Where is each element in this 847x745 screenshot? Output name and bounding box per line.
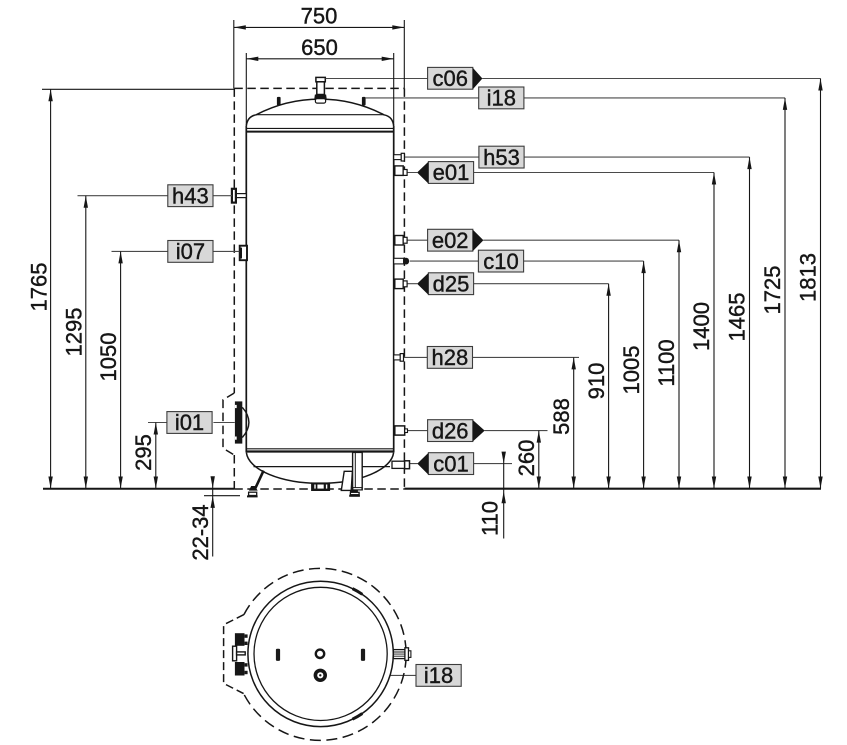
leader c01 bbox=[410, 463, 513, 465]
leader h53 bbox=[404, 156, 749, 158]
arrow 295 top bbox=[154, 423, 158, 435]
top view i18 port center dot bbox=[319, 674, 321, 676]
svg-text:1725: 1725 bbox=[760, 266, 785, 315]
flange i01 nick upper bbox=[235, 405, 237, 408]
arrow 260 bottom bbox=[537, 477, 541, 489]
dim 1400 line bbox=[713, 173, 715, 489]
top view flange stem vertical bbox=[233, 646, 237, 661]
right foot block bbox=[350, 490, 358, 492]
arrow 1050 top bbox=[118, 251, 122, 263]
arrow 22-34 upper (down) bbox=[211, 476, 215, 488]
top view weld mark lower right bbox=[353, 714, 363, 720]
connection i07 dark bar bbox=[239, 248, 242, 259]
arrow 1005 top bbox=[641, 261, 645, 273]
center drain slit right bbox=[326, 485, 327, 489]
svg-text:1050: 1050 bbox=[96, 333, 121, 382]
arrow 1465 top bbox=[747, 157, 751, 169]
top view insulation dashed circle bbox=[244, 568, 407, 740]
top view inner shell circle bbox=[254, 587, 387, 720]
arrow 110 upper (down) bbox=[502, 452, 506, 464]
svg-text:588: 588 bbox=[549, 398, 574, 435]
label c01 bbox=[417, 451, 473, 476]
leader i18 top bbox=[366, 97, 785, 99]
fitting c06 collar bbox=[315, 99, 325, 103]
label h28 bbox=[427, 345, 472, 370]
top weld seam lower line bbox=[246, 131, 393, 133]
center drain window bbox=[317, 485, 323, 489]
dim 650 line bbox=[246, 58, 393, 60]
dim 1813 line bbox=[820, 79, 822, 489]
stub c10 pipe bbox=[394, 258, 404, 264]
arrow 588 bottom bbox=[572, 477, 576, 489]
dome sensor tick right (i18 pocket) bbox=[362, 97, 366, 106]
arrow 1725 top bbox=[783, 98, 787, 110]
svg-text:260: 260 bbox=[514, 440, 539, 477]
svg-text:h53: h53 bbox=[483, 145, 520, 170]
svg-text:i18: i18 bbox=[424, 663, 453, 688]
svg-text:d26: d26 bbox=[432, 418, 469, 443]
top view tick right bbox=[361, 649, 365, 661]
front leg bottom band bbox=[353, 488, 362, 490]
top view flange stem horizontal bbox=[237, 652, 246, 655]
insulation jacket dashed outline (front view) bbox=[223, 88, 404, 489]
top view right stub nub bbox=[409, 651, 411, 658]
stub d26 flange square bbox=[395, 426, 405, 435]
front leg inner line bbox=[354, 453, 356, 490]
arrow 1295 bottom bbox=[84, 477, 88, 489]
dim 750 extension left bbox=[233, 20, 235, 88]
dim 1100 line bbox=[678, 240, 680, 488]
stub c10 bullet bbox=[403, 258, 409, 265]
arrow 1465 bottom bbox=[747, 477, 751, 489]
label i07 bbox=[168, 239, 213, 264]
ground baseline left segment bbox=[43, 488, 234, 490]
stub d25 nipple bbox=[403, 281, 407, 287]
label i18 bottom bbox=[416, 663, 461, 688]
leader h28 bbox=[404, 356, 579, 358]
flange i01 body bbox=[235, 401, 242, 443]
bottom weld seam upper line bbox=[246, 448, 393, 450]
tank shell left side bbox=[245, 126, 247, 453]
arrow 1725 bottom bbox=[783, 477, 787, 489]
svg-text:i18: i18 bbox=[487, 86, 516, 111]
stub e01 flange square bbox=[395, 166, 403, 176]
arrow 750 right bbox=[392, 25, 404, 29]
bottom weld seam lower line bbox=[246, 450, 393, 452]
svg-text:1005: 1005 bbox=[619, 346, 644, 395]
svg-text:910: 910 bbox=[584, 363, 609, 400]
top view i18 port outer bbox=[314, 669, 327, 682]
tank top dome bbox=[246, 99, 393, 127]
left foot base bbox=[247, 495, 258, 497]
label d26 bbox=[428, 418, 485, 443]
leader d26 bbox=[407, 430, 547, 432]
top view weld mark upper right bbox=[353, 589, 363, 595]
svg-text:1813: 1813 bbox=[796, 253, 821, 302]
bottom dished head arc bbox=[246, 453, 393, 484]
stub h28 pipe bbox=[394, 355, 401, 360]
leader c10 bbox=[410, 260, 644, 262]
right foot base bbox=[349, 495, 360, 497]
center drain slit left bbox=[314, 485, 315, 489]
svg-text:295: 295 bbox=[131, 434, 156, 471]
stub e02 nipple bbox=[403, 237, 407, 243]
stub e02 flange square bbox=[395, 236, 403, 246]
arrow 1295 top bbox=[84, 196, 88, 208]
svg-text:h28: h28 bbox=[432, 345, 469, 370]
label i18 top bbox=[479, 86, 524, 111]
left foot block bbox=[249, 486, 258, 491]
arrow 1100 top bbox=[677, 240, 681, 252]
arrow 910 bottom bbox=[606, 477, 610, 489]
dim 295 line bbox=[155, 423, 157, 489]
top view tick left bbox=[276, 649, 280, 661]
arrow 260 top bbox=[537, 431, 541, 443]
top weld seam upper line bbox=[246, 127, 393, 129]
top view right stub threads bbox=[394, 652, 406, 656]
svg-text:e02: e02 bbox=[432, 228, 469, 253]
arrow 1400 top bbox=[712, 173, 716, 185]
leader c06 bbox=[326, 78, 821, 80]
dim 750 extension right bbox=[403, 20, 405, 88]
stub c01 pipe bbox=[392, 461, 405, 468]
stub d25 flange square bbox=[395, 279, 403, 289]
dim 650 extension right bbox=[393, 53, 395, 126]
svg-text:1765: 1765 bbox=[27, 263, 52, 312]
ground baseline right segment bbox=[404, 488, 821, 490]
leader h43 bbox=[78, 195, 233, 197]
svg-text:h43: h43 bbox=[172, 183, 209, 208]
center drain block bbox=[311, 482, 330, 491]
top view flange bolt 1 bbox=[245, 634, 248, 637]
flange i01 collar arc bbox=[242, 407, 249, 437]
arrow 650 right bbox=[382, 57, 394, 61]
arrow 1813 top bbox=[818, 79, 822, 91]
dim 650 extension left bbox=[245, 53, 247, 126]
top view right stub end bar bbox=[405, 648, 409, 661]
dim 1765 top extension line bbox=[42, 88, 234, 90]
fitting c06 nut bbox=[314, 95, 326, 99]
arrow 1100 bottom bbox=[677, 477, 681, 489]
top view i18 port inner bbox=[317, 672, 323, 678]
svg-text:e01: e01 bbox=[433, 160, 470, 185]
arrow 750 left bbox=[234, 25, 246, 29]
dim 750 line bbox=[234, 26, 404, 28]
top view flange bolt 2 bbox=[245, 642, 248, 645]
svg-text:110: 110 bbox=[477, 501, 502, 536]
leader i07 bbox=[112, 250, 240, 252]
arrow 295 bottom bbox=[154, 477, 158, 489]
label e02 bbox=[428, 228, 484, 253]
leader i01 bbox=[148, 422, 235, 424]
connection i07 boss bbox=[240, 246, 247, 261]
arrow 650 left bbox=[246, 57, 258, 61]
arrow 1813 bottom bbox=[818, 477, 822, 489]
dim 1050 line bbox=[120, 251, 122, 488]
label d25 bbox=[417, 271, 474, 296]
dim 260 line bbox=[538, 431, 540, 489]
top view outer shell circle bbox=[248, 581, 393, 726]
dim 1295 line bbox=[85, 196, 87, 489]
svg-text:750: 750 bbox=[301, 4, 338, 29]
fitting c06 cap bbox=[316, 77, 325, 81]
svg-text:i01: i01 bbox=[175, 410, 204, 435]
connection h43 pipe bbox=[236, 194, 246, 198]
leader e01 bbox=[407, 172, 714, 174]
back-right leg bbox=[341, 471, 352, 490]
arrow 1005 bottom bbox=[641, 477, 645, 489]
stub h28 end cap bbox=[400, 354, 403, 362]
top view flange bolt 3 bbox=[245, 663, 248, 666]
label c10 bbox=[478, 249, 523, 274]
dome tangent line bbox=[256, 114, 384, 116]
svg-text:1295: 1295 bbox=[62, 308, 87, 357]
dim 110 line bbox=[503, 453, 505, 539]
label h53 bbox=[479, 145, 524, 170]
label i01 bbox=[167, 410, 212, 435]
leader i18 bottom bbox=[327, 674, 416, 676]
dim 1465 line bbox=[749, 157, 751, 488]
top view flange block upper bbox=[235, 633, 245, 646]
leader e02 bbox=[407, 239, 679, 241]
arrow 22-34 lower (up) bbox=[211, 496, 215, 508]
stub e01 nipple bbox=[403, 170, 407, 176]
connection h43 flange bbox=[232, 189, 236, 203]
bottom head far rim line bbox=[254, 466, 391, 468]
label h43 bbox=[168, 183, 213, 208]
dim 22-34 foot extension line bbox=[204, 495, 240, 497]
dim 1725 line bbox=[784, 98, 786, 489]
dim 1005 line bbox=[643, 261, 645, 488]
arrow 588 top bbox=[572, 357, 576, 369]
stub h53 end cap bbox=[401, 153, 404, 161]
arrow 1400 bottom bbox=[712, 477, 716, 489]
arrow 110 lower (up) bbox=[502, 491, 506, 503]
stub h53 pipe bbox=[394, 155, 402, 160]
top view flange block lower bbox=[235, 662, 245, 676]
svg-text:c10: c10 bbox=[483, 249, 518, 274]
right foot plate bbox=[350, 492, 359, 494]
front leg column bbox=[353, 452, 363, 489]
flange i01 nick lower bbox=[235, 437, 237, 440]
stub c01 end square bbox=[405, 461, 410, 469]
left foot plate bbox=[249, 492, 257, 495]
svg-text:i07: i07 bbox=[176, 239, 205, 264]
svg-text:650: 650 bbox=[301, 35, 338, 60]
arrow 1050 bottom bbox=[118, 477, 122, 489]
dim 22-34 line bbox=[212, 477, 214, 557]
dim 588 line bbox=[573, 357, 575, 488]
dim 910 line bbox=[608, 284, 610, 489]
tank shell right side bbox=[393, 126, 395, 453]
svg-text:1100: 1100 bbox=[654, 339, 679, 386]
svg-text:1465: 1465 bbox=[725, 293, 750, 342]
fitting c06 body bbox=[317, 82, 325, 95]
top view flange bolt 4 bbox=[245, 671, 248, 674]
back-left leg bbox=[255, 471, 264, 490]
label e01 bbox=[417, 160, 474, 185]
arrow 910 top bbox=[606, 284, 610, 296]
label c06 bbox=[428, 66, 483, 91]
arrow 1765 top bbox=[48, 89, 52, 101]
svg-text:c01: c01 bbox=[433, 451, 468, 476]
svg-text:22-34: 22-34 bbox=[188, 504, 213, 560]
top view right stub body bbox=[393, 650, 406, 659]
dim 1765 line bbox=[50, 89, 52, 488]
svg-text:c06: c06 bbox=[432, 66, 467, 91]
stub d26 nipple bbox=[405, 429, 408, 433]
top view center ring bbox=[316, 650, 324, 658]
top view insulation notch dashed bbox=[224, 615, 244, 694]
svg-text:1400: 1400 bbox=[689, 302, 714, 351]
dome sensor tick left bbox=[277, 97, 281, 106]
leader d25 bbox=[407, 283, 608, 285]
svg-text:d25: d25 bbox=[433, 271, 470, 296]
arrow 1765 bottom bbox=[48, 477, 52, 489]
